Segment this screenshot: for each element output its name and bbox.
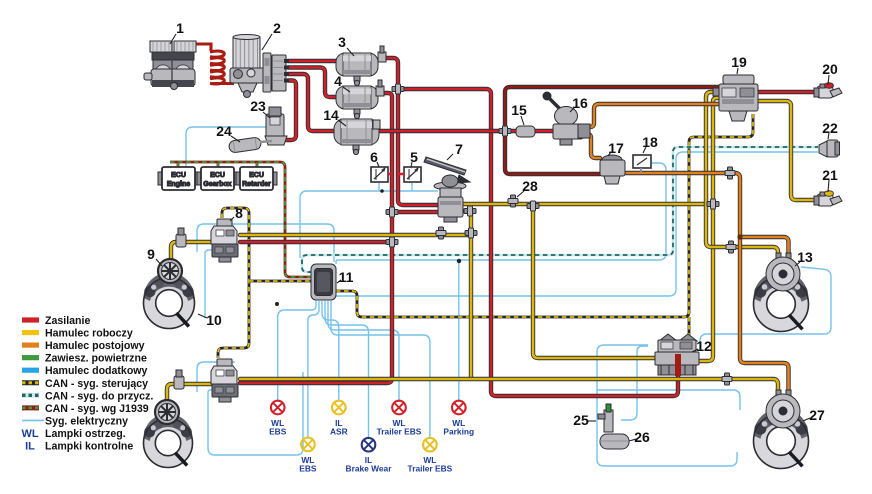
svg-text:Zasilanie: Zasilanie bbox=[45, 315, 90, 327]
svg-text:Hamulec roboczy: Hamulec roboczy bbox=[45, 328, 133, 340]
svg-text:4: 4 bbox=[334, 73, 342, 89]
svg-text:28: 28 bbox=[522, 178, 538, 194]
svg-text:Syg. elektryczny: Syg. elektryczny bbox=[45, 415, 128, 427]
svg-text:13: 13 bbox=[797, 249, 813, 265]
svg-text:14: 14 bbox=[323, 107, 339, 123]
svg-text:22: 22 bbox=[822, 120, 838, 136]
svg-text:27: 27 bbox=[809, 407, 825, 423]
svg-text:Lampki kontrolne: Lampki kontrolne bbox=[45, 441, 133, 453]
svg-text:ECU: ECU bbox=[171, 172, 186, 179]
svg-text:18: 18 bbox=[642, 134, 658, 150]
svg-text:ASR: ASR bbox=[330, 427, 348, 437]
svg-text:EBS: EBS bbox=[299, 463, 317, 473]
svg-text:12: 12 bbox=[696, 338, 712, 354]
svg-text:15: 15 bbox=[511, 102, 527, 118]
svg-text:5: 5 bbox=[410, 149, 418, 165]
svg-text:10: 10 bbox=[206, 312, 222, 328]
svg-text:CAN - syg. sterujący: CAN - syg. sterujący bbox=[45, 378, 148, 390]
svg-text:Hamulec dodatkowy: Hamulec dodatkowy bbox=[45, 365, 148, 377]
svg-text:1: 1 bbox=[176, 20, 184, 36]
svg-text:EBS: EBS bbox=[269, 427, 287, 437]
svg-text:Parking: Parking bbox=[443, 427, 474, 437]
svg-text:25: 25 bbox=[573, 412, 589, 428]
svg-text:Engine: Engine bbox=[167, 181, 190, 188]
svg-text:Zawiesz. powietrzne: Zawiesz. powietrzne bbox=[45, 353, 147, 365]
svg-text:CAN - syg. wg J1939: CAN - syg. wg J1939 bbox=[45, 403, 149, 415]
svg-text:WL: WL bbox=[21, 428, 38, 440]
svg-text:IL: IL bbox=[25, 441, 35, 453]
svg-text:24: 24 bbox=[216, 123, 232, 139]
svg-text:9: 9 bbox=[147, 246, 155, 262]
svg-text:8: 8 bbox=[235, 205, 243, 221]
svg-text:20: 20 bbox=[822, 61, 838, 77]
svg-text:Retarder: Retarder bbox=[242, 181, 271, 188]
svg-text:3: 3 bbox=[338, 34, 346, 50]
svg-text:11: 11 bbox=[339, 269, 354, 285]
svg-text:7: 7 bbox=[455, 141, 463, 157]
svg-text:ECU: ECU bbox=[249, 172, 264, 179]
svg-text:ECU: ECU bbox=[210, 172, 225, 179]
svg-text:16: 16 bbox=[572, 95, 588, 111]
svg-text:Lampki ostrzeg.: Lampki ostrzeg. bbox=[45, 428, 126, 440]
svg-text:CAN - syg. do przycz.: CAN - syg. do przycz. bbox=[45, 390, 153, 402]
svg-text:Brake Wear: Brake Wear bbox=[346, 464, 393, 474]
svg-text:2: 2 bbox=[273, 20, 281, 36]
svg-text:6: 6 bbox=[370, 149, 378, 165]
svg-text:Gearbox: Gearbox bbox=[203, 181, 232, 188]
svg-text:Trailer EBS: Trailer EBS bbox=[377, 427, 422, 437]
svg-text:Hamulec postojowy: Hamulec postojowy bbox=[45, 340, 145, 352]
svg-text:23: 23 bbox=[250, 98, 266, 114]
svg-text:Trailer EBS: Trailer EBS bbox=[408, 464, 453, 474]
svg-text:17: 17 bbox=[608, 140, 624, 156]
svg-text:26: 26 bbox=[634, 429, 650, 445]
svg-text:21: 21 bbox=[822, 167, 838, 183]
svg-text:19: 19 bbox=[731, 54, 747, 70]
